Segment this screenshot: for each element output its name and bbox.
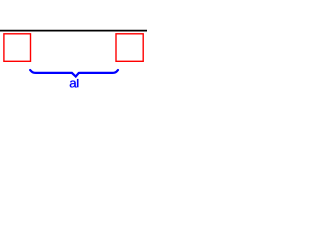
brace — [30, 70, 118, 77]
ceiling line — [0, 30, 147, 32]
right square — [116, 34, 143, 62]
label stroke (l) — [77, 79, 79, 87]
left square — [4, 34, 31, 62]
svg-text:a: a — [69, 75, 77, 90]
